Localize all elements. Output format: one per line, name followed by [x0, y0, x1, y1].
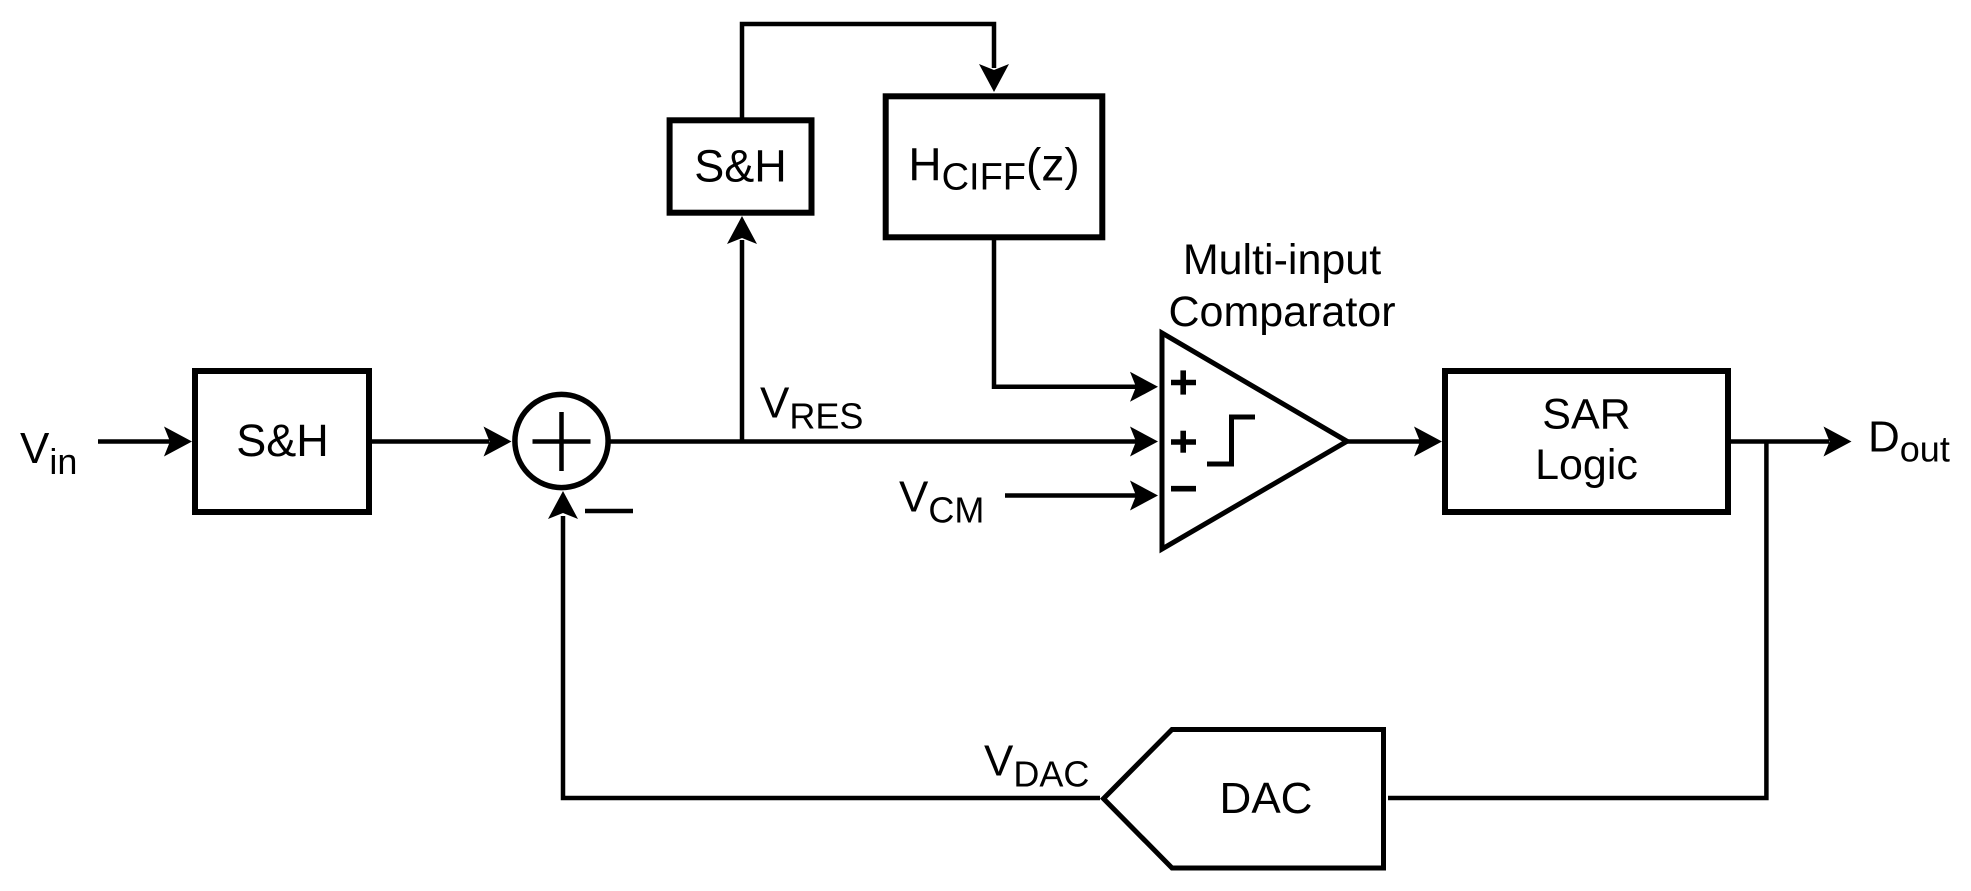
wire summer output to comparator second input: [611, 439, 1137, 444]
svg-text:Multi-input: Multi-input: [1183, 236, 1381, 284]
wire DAC output left and up to summer minus input: [563, 516, 1100, 798]
wire SAR logic output to Dout: [1731, 439, 1829, 444]
arrowhead into comparator third input: [1130, 481, 1158, 511]
svg-text:Comparator: Comparator: [1168, 288, 1395, 336]
comparator triangle: [1162, 333, 1347, 549]
svg-text:S&H: S&H: [694, 141, 787, 192]
summing junction circle: [515, 394, 608, 487]
summing junction plus sign: [559, 412, 564, 471]
arrowhead into top S&H bottom: [727, 216, 757, 244]
wire HCIFF output down and right to comparator first input: [994, 239, 1136, 387]
svg-text:S&H: S&H: [236, 415, 329, 466]
wire VCM to comparator third input: [1005, 493, 1136, 498]
arrowhead into HCIFF top: [979, 64, 1009, 92]
svg-text:SAR: SAR: [1542, 391, 1630, 439]
block SAR Logic box: [1445, 371, 1728, 512]
comparator plus sign input 2: [1171, 439, 1196, 445]
arrowhead into SAR logic: [1414, 427, 1442, 457]
comparator step symbol: [1207, 417, 1255, 464]
arrowhead at Dout: [1824, 427, 1852, 457]
arrowhead into comparator first input: [1130, 372, 1158, 402]
block S&H input box: [195, 371, 369, 512]
arrowhead into summer: [484, 427, 512, 457]
wire comparator output to SAR logic: [1347, 439, 1420, 444]
block HCIFF box: [886, 96, 1103, 237]
minus sign at feedback input of summer: [585, 509, 633, 514]
arrowhead into summer bottom: [548, 491, 578, 519]
block DAC pentagon: [1104, 730, 1384, 869]
wire S&H output to summer: [372, 439, 489, 444]
block S&H top box: [670, 120, 812, 212]
wire Vin to S&H input: [98, 439, 170, 444]
arrowhead into comparator second input: [1130, 427, 1158, 457]
comparator minus sign input 3: [1171, 486, 1196, 492]
svg-text:Logic: Logic: [1535, 441, 1638, 489]
wire feedback from output node down and left to DAC: [1388, 442, 1766, 799]
wire top S&H output over the top to HCIFF: [742, 24, 994, 120]
arrowhead into S&H input: [164, 427, 192, 457]
svg-text:DAC: DAC: [1220, 774, 1313, 823]
wire branch up from VRES node to top S&H: [740, 240, 745, 442]
comparator plus sign input 1: [1171, 380, 1196, 386]
